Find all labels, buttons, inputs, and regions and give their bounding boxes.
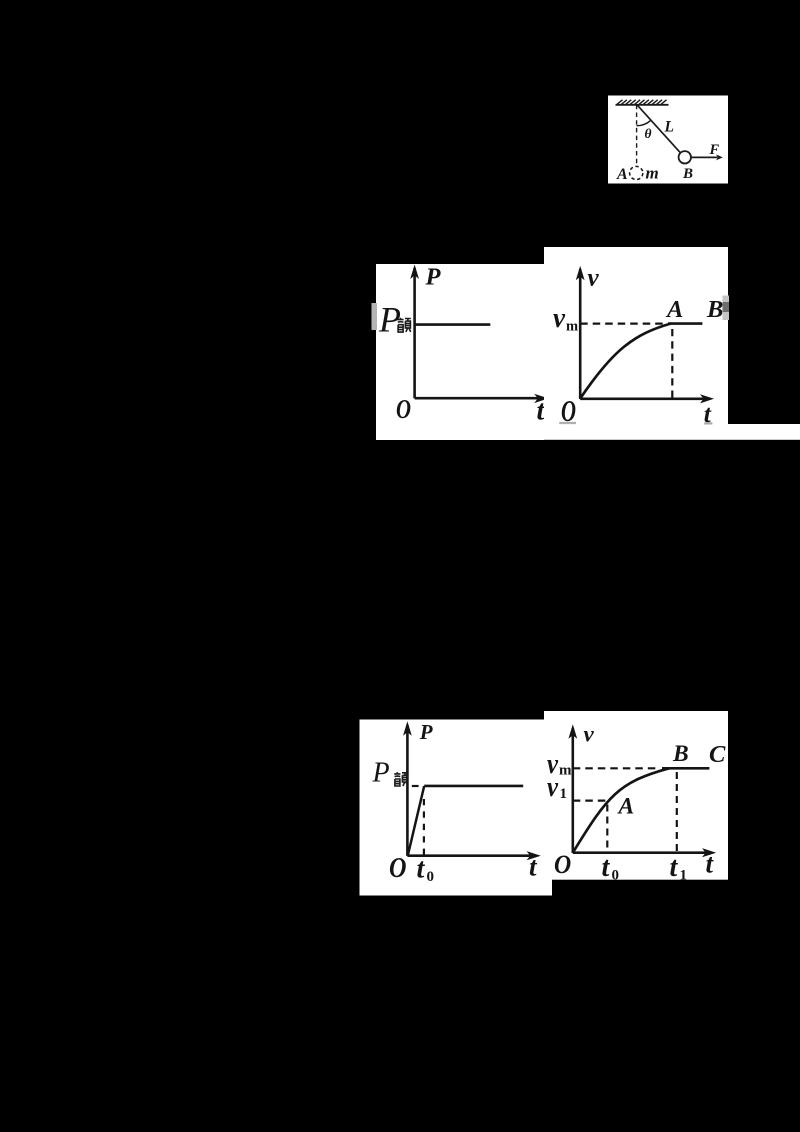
svg-text:v: v — [547, 772, 558, 803]
svg-text:P: P — [372, 757, 390, 788]
dashed circle A (ball at lowest position) — [630, 166, 643, 179]
P axis arrowhead lower-left — [403, 721, 412, 736]
svg-text:C: C — [709, 741, 726, 768]
svg-text:0: 0 — [427, 869, 435, 885]
dashed vertical at t0 lower-right — [606, 805, 608, 853]
rod L from pivot to ball B — [637, 105, 680, 153]
svg-text:O: O — [389, 853, 407, 884]
svg-text:P: P — [419, 720, 433, 744]
svg-text:P: P — [425, 263, 442, 290]
upper-right graph panel background — [544, 247, 728, 424]
svg-text:A: A — [665, 296, 683, 323]
t axis arrowhead lower-left — [527, 851, 541, 860]
bottom white strip extending right — [544, 424, 800, 440]
ceiling line — [616, 104, 669, 106]
short dash at rated level — [412, 785, 419, 787]
P axis (vertical) lower-left — [406, 725, 409, 856]
svg-text:O: O — [554, 849, 571, 879]
svg-text:v: v — [584, 721, 595, 746]
svg-text:0: 0 — [612, 868, 620, 884]
P axis arrowhead upper-left — [410, 265, 419, 280]
gray artifact left of P_e label — [372, 303, 378, 330]
rated power horizontal line — [415, 323, 491, 326]
gray underline below O — [559, 422, 576, 424]
svg-text:m: m — [559, 762, 572, 778]
svg-text:L: L — [664, 119, 674, 136]
svg-text:F: F — [709, 142, 720, 158]
v axis (vertical) lower-right — [571, 728, 574, 853]
force F arrow line — [691, 156, 717, 158]
P axis (vertical) upper-left — [413, 268, 416, 398]
t axis arrowhead upper-left — [534, 394, 548, 403]
svg-text:A: A — [616, 166, 628, 183]
angle arc theta — [637, 120, 651, 126]
svg-text:m: m — [646, 164, 659, 183]
svg-text:1: 1 — [680, 868, 688, 884]
svg-text:t: t — [417, 854, 426, 885]
svg-text:B: B — [672, 741, 689, 767]
dashed line vm level — [580, 323, 667, 325]
t axis arrowhead upper-right — [700, 394, 714, 403]
rated power horizontal line lower-left — [424, 785, 523, 788]
dashed line v1 level — [573, 799, 607, 801]
t axis (horizontal) upper-right — [580, 397, 707, 400]
svg-text:B: B — [706, 296, 723, 323]
svg-text:A: A — [617, 793, 635, 819]
velocity curve lower-right — [573, 768, 669, 852]
flat max speed segment B to C — [662, 767, 709, 770]
v axis arrowhead upper-right — [576, 266, 585, 281]
ball B circle — [679, 151, 691, 163]
dashed vertical at t0 lower-left — [423, 799, 425, 856]
dashed vertical at t1 lower-right — [676, 772, 678, 853]
svg-text:B: B — [682, 166, 693, 182]
velocity curve upper-right — [580, 324, 671, 399]
dashed line vm level lower-right — [573, 767, 658, 769]
t axis (horizontal) upper-left — [415, 397, 538, 400]
pendulum panel background — [608, 96, 728, 184]
svg-text:O: O — [396, 393, 411, 424]
svg-text:v: v — [553, 302, 566, 334]
dashed vertical plumb line — [636, 105, 638, 166]
gray underline below t — [704, 422, 712, 424]
svg-text:1: 1 — [560, 786, 568, 802]
CJK subscript e (rated) upper-left — [397, 318, 410, 332]
svg-text:v: v — [588, 264, 600, 291]
gray artifact dark at right edge — [723, 302, 730, 312]
force F arrowhead — [716, 154, 723, 160]
svg-text:t: t — [670, 852, 679, 883]
svg-text:t: t — [602, 852, 611, 883]
v axis (vertical) upper-right — [579, 269, 582, 399]
lower-left graph panel background — [360, 720, 553, 896]
power ramp line — [408, 786, 424, 856]
gray artifact light at right edge — [723, 296, 730, 321]
lower-right graph panel background — [544, 711, 728, 880]
t axis (horizontal) lower-left — [407, 854, 533, 857]
upper-left graph panel background — [376, 264, 544, 440]
svg-text:m: m — [566, 318, 578, 334]
flat max speed segment A to B — [668, 322, 702, 325]
t axis (horizontal) lower-right — [573, 851, 709, 854]
v axis arrowhead lower-right — [568, 724, 577, 739]
svg-text:θ: θ — [645, 126, 652, 141]
dashed vertical at point A — [671, 329, 673, 399]
CJK subscript e (rated) lower-left — [394, 772, 408, 786]
ceiling hatch marks — [617, 100, 667, 105]
t axis arrowhead lower-right — [702, 848, 716, 857]
